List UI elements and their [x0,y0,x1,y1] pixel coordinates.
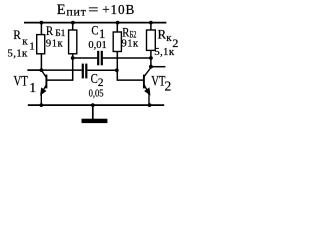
node: bottom rail junction VT2 emitter [148,103,152,107]
svg-text:91к: 91к [46,38,64,49]
transistor VT1 [41,70,73,105]
label RK1 [13,27,35,52]
capacitor C2 [27,64,117,79]
svg-text:2: 2 [98,77,104,89]
wire: output stub left from VT1 collector [27,69,41,71]
svg-text:5,1к: 5,1к [154,46,175,58]
svg-text:R: R [158,26,167,41]
svg-text:Е: Е [57,2,66,18]
label C1 [91,23,105,42]
wire: bottom ground rail [28,104,164,106]
label VT1 [14,74,37,95]
svg-text:0,05: 0,05 [89,89,104,100]
svg-text:=: = [88,3,99,18]
svg-text:к: к [22,36,28,48]
node: top rail junction RB1 [71,21,75,25]
label RB2 [122,25,136,40]
wire: output stub right from VT2 collector [151,66,166,68]
label supply voltage Епит = +10В [57,2,135,19]
resistor RB2 [113,23,121,81]
svg-text:пит: пит [66,5,86,19]
resistor RB1 [69,23,77,81]
node: top rail junction RB2 [116,21,120,25]
node: C1 right / VT2 collector junction [149,56,153,60]
svg-text:0,01: 0,01 [88,40,106,51]
svg-text:VT: VT [151,74,165,90]
svg-text:R: R [46,24,54,38]
svg-text:+10В: +10В [102,2,135,17]
capacitor C1 [73,51,151,66]
node: RB1 bottom / C1 left junction [71,56,75,60]
svg-text:к: к [166,32,172,44]
svg-text:5,1к: 5,1к [7,48,28,60]
node: bottom rail junction ground [91,103,95,107]
svg-text:VT: VT [14,74,28,90]
svg-text:C: C [91,23,98,38]
svg-text:91к: 91к [122,39,140,50]
resistor RK2 [147,23,156,67]
transistor VT2 [117,68,151,106]
wire: top supply rail [24,22,166,24]
node: VT2 collector output junction [149,65,153,69]
ground [82,105,108,123]
svg-text:C: C [91,71,98,86]
label RB1 [46,24,66,39]
resistor RK1 [37,23,45,71]
node: bottom rail junction VT1 emitter [39,103,43,107]
node: top rail junction RK2 [149,21,153,25]
label C2 [91,71,104,89]
svg-text:1: 1 [29,40,35,52]
svg-text:2: 2 [165,79,172,94]
label RK2 [158,26,179,49]
node: VT1 collector junction [40,68,44,72]
node: C2 right / VT2 base junction [115,68,119,72]
svg-text:R: R [13,27,21,42]
node: top rail junction RK1 [40,21,44,25]
label VT2 [151,74,171,94]
svg-text:1: 1 [29,80,36,95]
